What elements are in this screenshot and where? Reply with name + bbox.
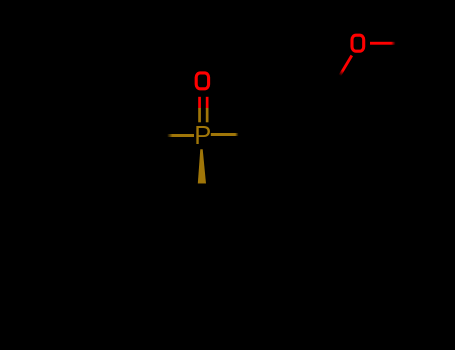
wire P=O double bond right line red half	[206, 97, 209, 109]
oxygen O1 (phosphine oxide oxygen label)	[196, 73, 208, 89]
wire P=O double bond left line red half	[198, 97, 201, 109]
wire P-aryl bond (right half-bond)	[211, 133, 239, 136]
wire P-phenyl bond (left half-bond)	[168, 134, 195, 137]
wire P=O double bond left line olive half	[198, 108, 201, 122]
wire O-CH3 bond (methyl half-bond)	[370, 42, 396, 45]
svg-text:P: P	[194, 122, 211, 150]
oxygen O2 (methoxy oxygen label)	[352, 35, 364, 51]
wedge bond (stereo bond from P downward)	[198, 149, 206, 183]
wire O-aryl bond (diagonal half-bond)	[340, 56, 352, 76]
wire P=O double bond right line olive half	[206, 108, 209, 122]
